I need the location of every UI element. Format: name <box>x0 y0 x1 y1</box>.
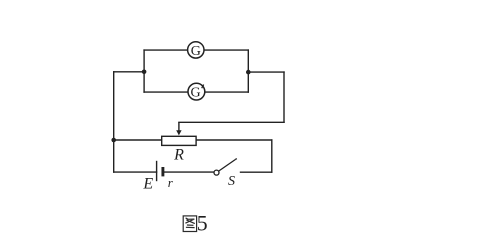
wire: outer loop left vertical <box>113 72 115 172</box>
svg-text:5: 5 <box>197 212 208 236</box>
rheostat R (slider arrow) <box>176 122 181 135</box>
svg-text:G: G <box>191 86 201 101</box>
wire: right connector from node B to outer right vertical <box>248 71 284 73</box>
node A (left junction dot) <box>142 70 147 75</box>
switch S (blade) <box>219 159 237 171</box>
wire: inner loop bottom (through G') <box>144 91 248 93</box>
wire: inner loop left vertical <box>143 50 145 92</box>
battery E (short negative plate) <box>161 167 164 176</box>
wire: switch to right vertical segment <box>241 171 272 173</box>
svg-text:G: G <box>191 44 201 59</box>
wire: wiper horizontal feed <box>179 121 284 123</box>
svg-text:S: S <box>228 174 235 189</box>
wire: lower right vertical (rheostat to switch) <box>271 140 273 172</box>
battery E (long positive plate) <box>156 161 158 181</box>
svg-text:r: r <box>168 175 174 190</box>
node C (rheostat wire junction dot on left vertical) <box>111 138 116 143</box>
wire: outer loop upper right vertical (to wiper) <box>283 72 285 122</box>
switch S (contact circle) <box>214 170 219 175</box>
svg-text:E: E <box>142 175 153 192</box>
wire: left connector from outer loop to node A <box>114 71 144 73</box>
caption 图 (hand-drawn glyph) <box>183 216 196 232</box>
wire: battery to switch segment <box>164 171 214 173</box>
wire: inner loop right vertical <box>247 50 249 92</box>
galvanometer G' <box>188 83 205 100</box>
wire: battery wire left segment <box>114 171 157 173</box>
wire: inner loop top (through G) <box>144 49 248 51</box>
rheostat R (body) <box>162 136 196 145</box>
galvanometer G <box>188 42 204 59</box>
node B (right junction dot) <box>246 70 251 75</box>
wire: rheostat main horizontal <box>114 139 272 141</box>
svg-text:R: R <box>173 147 184 164</box>
